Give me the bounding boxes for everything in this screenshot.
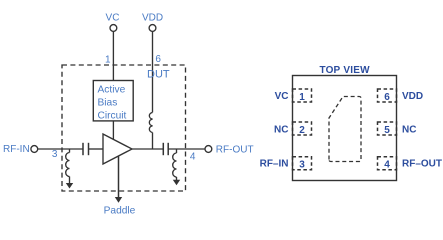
- svg-text:4: 4: [190, 151, 196, 162]
- svg-text:DUT: DUT: [147, 69, 170, 81]
- svg-text:Circuit: Circuit: [98, 111, 127, 122]
- svg-text:RF-IN: RF-IN: [3, 144, 30, 155]
- svg-text:1: 1: [299, 92, 305, 103]
- svg-text:3: 3: [52, 149, 58, 160]
- svg-text:Paddle: Paddle: [104, 205, 136, 216]
- svg-text:3: 3: [299, 160, 305, 171]
- svg-text:VDD: VDD: [402, 91, 423, 102]
- svg-text:1: 1: [105, 55, 111, 66]
- svg-text:RF–OUT: RF–OUT: [402, 159, 442, 170]
- svg-text:RF–IN: RF–IN: [260, 159, 289, 170]
- svg-text:5: 5: [384, 125, 390, 136]
- svg-text:6: 6: [155, 54, 161, 65]
- svg-text:VDD: VDD: [142, 13, 163, 24]
- svg-text:NC: NC: [402, 124, 416, 135]
- svg-text:2: 2: [299, 125, 305, 136]
- svg-text:6: 6: [384, 92, 390, 103]
- svg-text:TOP VIEW: TOP VIEW: [319, 65, 370, 76]
- svg-text:NC: NC: [274, 124, 288, 135]
- svg-text:VC: VC: [106, 13, 120, 24]
- svg-text:4: 4: [384, 160, 390, 171]
- svg-text:RF-OUT: RF-OUT: [216, 145, 254, 156]
- svg-text:Active: Active: [98, 85, 126, 96]
- svg-text:VC: VC: [275, 91, 289, 102]
- svg-text:Bias: Bias: [98, 98, 118, 109]
